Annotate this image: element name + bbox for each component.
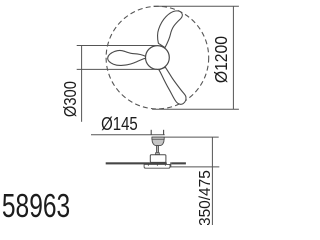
dashed circle blade sweep Ø1200 xyxy=(106,6,209,109)
canopy rim xyxy=(152,137,164,139)
svg-text:Ø1200: Ø1200 xyxy=(211,36,231,83)
downrod xyxy=(156,146,158,153)
dimension line Ø300 xyxy=(81,45,83,122)
bracket nub left xyxy=(148,164,149,165)
canopy bowl xyxy=(152,139,164,145)
dimension line 350/475 xyxy=(211,137,213,225)
dimension line Ø1200 xyxy=(232,6,234,109)
svg-text:Ø300: Ø300 xyxy=(61,81,80,117)
fan blade west xyxy=(108,50,147,65)
tick canopy left xyxy=(150,130,152,135)
extension line circle top xyxy=(154,5,239,7)
extension line fan bottom xyxy=(170,166,219,168)
fan blade lower-right xyxy=(159,67,186,104)
tick canopy right xyxy=(163,130,165,135)
svg-text:58963: 58963 xyxy=(2,189,70,225)
blade bar right xyxy=(171,162,186,164)
extension line circle bottom xyxy=(152,108,239,110)
ceiling line xyxy=(152,136,219,138)
blade bar left xyxy=(106,162,167,164)
hub circle Ø300 xyxy=(146,46,170,70)
motor housing upper xyxy=(150,155,166,163)
tick blade right end xyxy=(170,162,172,167)
extension line hub bottom xyxy=(77,68,157,70)
svg-text:Ø145: Ø145 xyxy=(101,114,138,135)
svg-text:350/475: 350/475 xyxy=(197,170,214,225)
leader underline Ø145 xyxy=(91,134,165,136)
extension line hub top xyxy=(77,45,157,47)
lower housing xyxy=(144,164,170,168)
fan blade upper-right xyxy=(157,11,182,48)
bracket nub right xyxy=(165,164,166,165)
bracket nub mid xyxy=(157,164,158,165)
rod coupling xyxy=(155,152,159,154)
